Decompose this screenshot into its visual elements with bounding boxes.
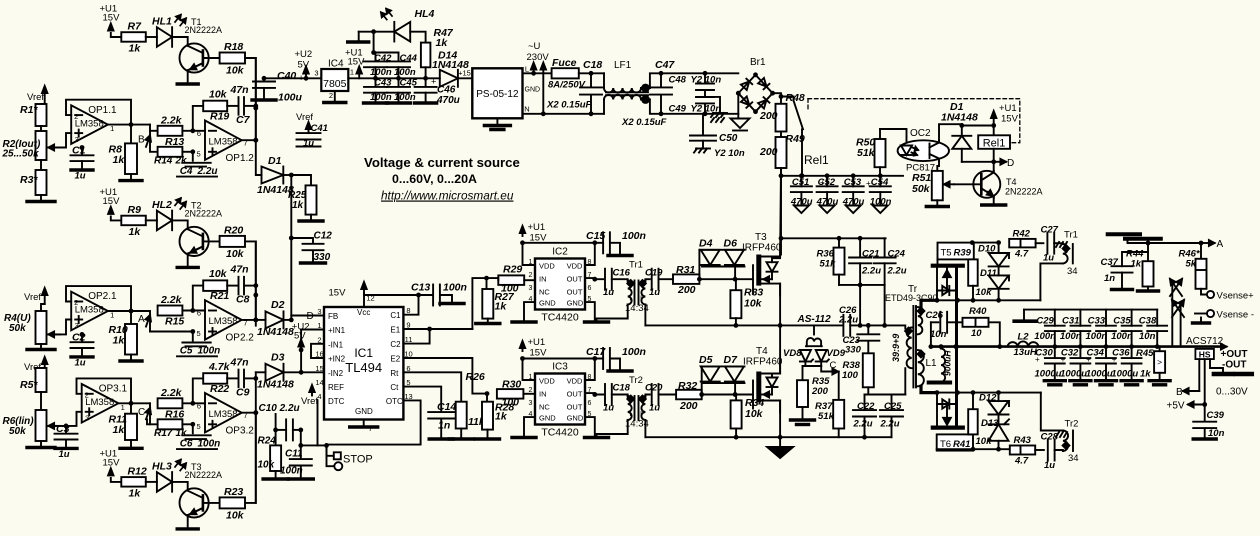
wire pin15 stub [301,371,324,373]
wire emitter T3 [187,515,189,527]
svg-text:100n: 100n [198,346,221,357]
svg-text:NC: NC [539,402,550,411]
capacitor C20 1u [645,383,663,414]
wire fb tap 1 [193,106,203,131]
junction relay +U1 [959,123,996,128]
capacitor C9 47n [230,356,250,398]
wire +U2 rail left [264,77,321,79]
svg-text:C2: C2 [390,340,401,349]
svg-text:Vref: Vref [24,292,41,303]
diodes D12 D13 [979,393,1009,450]
svg-text:5k: 5k [1186,259,1197,270]
svg-text:1u: 1u [303,138,314,149]
svg-text:+: + [820,178,825,187]
junction block2 out [253,318,258,323]
svg-text:-OUT: -OUT [1222,360,1246,371]
svg-text:330: 330 [314,252,331,263]
svg-text:C13: C13 [411,282,430,294]
power +U1 15V (relay) [991,103,1019,126]
svg-text:OP3.2: OP3.2 [226,426,255,437]
svg-text:1k: 1k [113,335,126,347]
junction rail C33 [1104,344,1109,349]
wire primary bottom bus [868,394,905,396]
wire C26 to Tr primary [850,325,905,328]
wire C28 to Tr2 III [1055,450,1063,451]
capacitor C40 100u [252,70,304,104]
svg-text:C22: C22 [857,401,875,412]
resistor R36 51k [817,238,845,285]
svg-text:6: 6 [197,309,201,318]
svg-text:50k: 50k [9,323,26,334]
wire L to fuse [523,72,552,74]
svg-text:10k: 10k [226,65,245,77]
capacitor C6 100n [177,424,220,449]
svg-text:1000u: 1000u [1086,368,1113,379]
capacitor C5 100n [177,332,220,357]
capacitor C45 100n [387,78,418,104]
wire R51 wiper to T4 base [954,183,981,185]
svg-text:TL494: TL494 [345,360,382,375]
svg-text:C27: C27 [1041,225,1059,236]
resistor R51 50k (pot) [912,171,954,200]
svg-text:4.7: 4.7 [1014,249,1029,260]
svg-text:TC4420: TC4420 [541,427,579,439]
svg-text:+U1: +U1 [528,222,546,233]
svg-text:50k: 50k [912,183,931,195]
resistor R30 100 [497,379,524,409]
wire +U2 vertical pins [300,330,302,373]
svg-text:OP3.1: OP3.1 [99,384,128,395]
junction snubber bottom [858,283,863,288]
resistor R49 200 [759,132,805,169]
wire STOP circle lead [327,445,335,466]
wire bus to T4 drain [779,325,781,373]
wire C7-out [246,105,256,107]
wire R17 1k right [182,423,192,425]
svg-text:1k: 1k [129,226,142,238]
pin 6 Rt TL494 [390,364,410,378]
ground R6(lin) [27,441,55,448]
junction bus392 [935,390,1001,395]
svg-text:Vsense -: Vsense - [1217,310,1255,321]
svg-text:OC2: OC2 [910,128,931,139]
svg-text:I: I [629,294,631,303]
svg-text:R17: R17 [154,428,173,439]
capacitor C24 2.2u [874,238,907,285]
junction R18/C7 node [253,106,258,111]
ground Br1 minus [731,93,750,130]
svg-text:+: + [1061,355,1066,364]
wire OP1.1 output [108,124,150,126]
junction C23 tap [866,323,871,328]
capacitor C26 2.2u (DC block) [838,305,858,336]
svg-text:3: 3 [75,321,79,330]
svg-text:-IN2: -IN2 [328,369,344,378]
svg-text:R29: R29 [503,264,522,276]
resistor R39 10k [968,259,992,300]
svg-text:2.2u: 2.2u [838,315,858,326]
svg-text:2N2222A: 2N2222A [1005,187,1043,197]
capacitor C12 330 [291,231,332,264]
resistor R3* [20,160,47,195]
potentiometer R6(lin) 50k [3,392,61,441]
wire Vsense- stub [1195,313,1207,315]
svg-text:C54: C54 [871,177,889,188]
wire gate T4 [702,394,753,396]
svg-text:VD9: VD9 [827,348,846,359]
resistor R33 10k [730,279,763,325]
junction IC2 +U1 [520,240,525,245]
IC U3 TC4420 [529,362,592,439]
svg-text:II: II [638,294,642,303]
resistor R18 10k [220,41,245,77]
wire IC3 VDD1 [523,359,536,381]
svg-text:C53: C53 [844,177,862,188]
ground IC3 GND5 [585,417,609,437]
wire OP3.1 feedback [77,378,132,403]
ground T3 emitter [177,527,198,530]
svg-text:HL2: HL2 [152,199,172,211]
resistor R17 1k [154,419,187,439]
svg-text:R12: R12 [128,465,147,477]
wire D1 cathode node [283,174,291,176]
svg-text:1000u: 1000u [1111,368,1138,379]
svg-text:Rel1: Rel1 [983,137,1006,149]
svg-text:4.7: 4.7 [1014,456,1029,467]
svg-text:LM358: LM358 [209,137,238,148]
capacitor C50 Y2 10n [690,114,745,159]
power Vref (row3) [24,357,47,373]
ground IC2 GND5 [585,302,609,322]
resistor R25 1k [288,175,323,221]
wire T6 bottom bus [937,448,1010,450]
svg-text:R18: R18 [224,41,243,53]
svg-text:5: 5 [197,422,201,431]
node C [138,407,151,420]
pin 5 Ct TL494 [390,378,410,392]
svg-text:D1: D1 [268,155,282,167]
svg-text:200: 200 [679,400,698,412]
arrow output rail [1214,344,1227,350]
resistor R32 200 [676,380,702,412]
svg-text:25...50k: 25...50k [2,149,40,160]
svg-text:100: 100 [502,397,520,409]
LED HL4 [381,8,434,42]
junction +U2 node [299,348,304,353]
pin 1 +IN1 TL494 [317,321,345,335]
pin 14 REF TL494 [315,378,344,392]
junction C1 tap [80,145,85,150]
wire R17 1k left [147,419,158,424]
resistor R28 1k [476,394,515,439]
svg-text:51k: 51k [820,259,837,270]
svg-text:IN: IN [539,390,547,399]
capacitor C23 330 [843,325,880,355]
junction rail C29 [1052,344,1057,349]
wire Tr2 III top [1041,393,1063,431]
svg-text:3: 3 [85,414,89,423]
svg-text:R26: R26 [466,371,485,383]
ground Vsense [1193,318,1210,324]
svg-text:100n: 100n [443,282,467,294]
junction R29 left [484,276,489,281]
wire T5 box top to bus [972,242,998,244]
diodes D5 D7 gate T4 [699,354,745,395]
pin 16 +IN2 TL494 [315,350,345,364]
svg-text:2.2k: 2.2k [160,114,183,126]
ground R51 [926,200,948,206]
wire Tr1 II to C19 [645,279,649,281]
wire OP2.2 out to D2 [256,319,266,321]
svg-text:2.2u: 2.2u [861,265,881,276]
svg-text:Rel1: Rel1 [804,153,829,167]
junction bus449 [971,447,1001,452]
svg-text:+: + [1086,355,1091,364]
svg-text:II: II [638,409,642,418]
wire emitter T1 [187,70,189,82]
svg-text:OUT: OUT [567,402,583,411]
wire OP3.2 out to D3 [256,371,266,373]
fuse Fuce 8A/250V [548,57,586,91]
capacitor C13 100n [411,282,467,306]
op-amp OP3.2 LM358 [197,393,255,437]
junction IC3 out pins [592,392,597,397]
capacitor C32 1000u electrolytic [1060,347,1091,385]
wire R23 to OP3.2 node [245,412,256,503]
wire E1 pin [403,328,472,330]
svg-text:10n: 10n [1139,331,1156,342]
diodes D4 D6 gate T3 [699,237,745,279]
junction STOP node [324,443,329,448]
capacitor C46 470u [415,77,460,107]
junction HV bus [779,173,883,178]
capacitor C35 100n [1111,310,1141,347]
arrow mains L [531,63,536,73]
wire R14 2k right [182,151,192,153]
svg-text:Voltage & current source: Voltage & current source [364,155,520,170]
junction C42 bus [371,50,376,55]
url microsmart [381,189,514,203]
wire E2 riser [460,358,487,394]
svg-text:R21: R21 [210,290,229,302]
dashed enclosure relay module [808,99,1020,143]
junction C3 tap [64,424,69,429]
capacitor C16 1u [603,268,631,299]
wire R9-HL2 [146,219,157,221]
wire DTC drop [317,400,319,445]
ground T4 emitter [982,198,1006,205]
ground R3* [27,195,55,202]
wire HV capacitor bus [781,175,903,177]
wire output rail [931,345,1219,348]
svg-text:100n: 100n [394,67,416,78]
svg-text:LM358: LM358 [75,118,104,129]
capacitor C33 100n [1086,310,1116,347]
connector Vsense+ [1207,291,1254,302]
svg-text:2.2u: 2.2u [197,166,218,177]
svg-text:1k: 1k [1131,259,1142,270]
svg-text:VD8: VD8 [783,348,802,359]
power Vref (row1) [27,86,47,104]
wire R47 bottom [425,67,427,78]
wire OP3.1 output [118,402,150,404]
zener VD9 [805,348,845,366]
power ~U 230V [527,41,550,63]
junction T5 top [970,240,1001,245]
transformer winding Tr1 III 34 [1056,230,1078,278]
junction D3 node [299,370,304,375]
svg-text:1u: 1u [1044,460,1055,471]
junction D2 cathode [289,318,294,323]
svg-text:1k: 1k [176,428,188,439]
svg-text:100n: 100n [1111,331,1133,342]
rectifier T6 bars [933,393,963,428]
svg-text:C4: C4 [180,166,193,177]
svg-text:Br1: Br1 [750,57,766,68]
svg-text:5: 5 [197,149,201,158]
resistor R21 10k [203,268,229,302]
junction L1 top [929,344,944,349]
wire IC3 +U1 rail [523,358,604,360]
resistor R24 10k [258,430,289,479]
junction return bus [734,435,867,440]
capacitor C21 2.2u [849,238,881,285]
wire D node vertical [290,175,292,320]
junction HL4/C42 bus [371,29,376,34]
resistor R16 2.2k [158,387,185,421]
wire IC2 +U1 rail [523,242,604,244]
capacitor C11 100n [280,430,313,479]
IC U1 TL494 [324,307,403,420]
pin 7 GND TL494 [368,424,372,433]
resistor R37 51k [815,372,844,438]
varistor R45 1k [1136,347,1170,385]
svg-text:C44: C44 [400,53,418,64]
node +5V [1167,359,1205,411]
svg-text:C26: C26 [926,310,944,321]
resistor R43 4.7 [1010,435,1035,467]
svg-text:2: 2 [529,272,533,279]
svg-text:R45: R45 [1136,348,1154,359]
ground Tr2 winding I [597,420,628,436]
pin 13 OTC TL494 [386,392,413,406]
ground HL4 [348,32,369,42]
wire snubber top [781,237,886,239]
svg-text:VDD: VDD [539,377,555,386]
junction fb node 3 [253,376,258,381]
svg-text:OUT: OUT [567,275,583,284]
transistor T1 2N2222A [180,17,223,73]
junction VDD8 rail [592,240,597,245]
transformer Tr ETD49-3C90 [885,284,938,387]
wire R29 to IC2 IN [524,279,535,281]
optocoupler OC2 PC817 [898,128,949,174]
svg-text:1u: 1u [603,403,614,414]
resistor R5* [20,368,47,392]
junction OP1.1 out [129,122,134,127]
junction R20 node [253,293,258,298]
svg-text:R42: R42 [1013,229,1031,240]
svg-text:2N2222A: 2N2222A [185,208,223,218]
wire base-R20 [203,240,220,242]
capacitor C31 100n [1060,310,1090,347]
svg-text:R48: R48 [786,92,805,104]
junction L arrow [531,71,536,76]
pin 4 DTC TL494 [317,392,344,406]
inductor L2 13uH [1008,332,1039,359]
svg-text:R39: R39 [954,248,972,259]
svg-text:OP2.1: OP2.1 [88,291,117,302]
svg-text:15V: 15V [329,288,347,299]
svg-text:1: 1 [350,68,354,77]
wire R38 bus to C22 [865,394,869,396]
svg-text:2: 2 [74,298,78,307]
capacitor C27 1u [1041,225,1059,264]
wire IC2 OUT [585,278,603,279]
svg-text:330: 330 [845,345,862,356]
svg-text:R19: R19 [210,110,229,122]
wire C27 to Tr1 III [1054,242,1063,244]
svg-text:T4: T4 [1006,177,1017,187]
wire STOP square lead [327,445,334,455]
svg-text:2: 2 [529,387,533,394]
wire block2 node chain [255,241,257,320]
junction T4 gate [699,392,737,397]
label N pin [524,105,529,114]
svg-text:Ct: Ct [390,383,399,392]
svg-text:47n: 47n [230,356,249,368]
capacitor C36 1000u electrolytic [1111,347,1142,385]
svg-text:C7: C7 [236,114,251,126]
power +U1 15V (IC3) [520,337,547,359]
svg-text:6: 6 [197,401,201,410]
svg-text:OP1.1: OP1.1 [88,105,117,116]
svg-text:C49: C49 [669,104,687,115]
junction inv node 3 [190,401,195,427]
wire C20 to R32 [659,394,677,396]
svg-text:DTC: DTC [328,397,345,406]
wire R29 left link [487,278,499,280]
svg-text:L2: L2 [1018,332,1030,343]
capacitor C43 100n [364,78,393,104]
wire D14-PS [458,77,472,79]
wire E2 pin [403,357,460,359]
capacitor C54 100n [870,176,892,213]
power +U2 5V (7805 out) [295,49,313,78]
svg-text:16: 16 [315,350,323,359]
junction C2-E1 [427,327,432,332]
svg-text:C20: C20 [645,383,663,394]
wire E1 riser [472,278,486,329]
svg-text:X2 0.15uF: X2 0.15uF [546,100,592,111]
connector Vsense- [1207,310,1254,321]
svg-text:B: B [138,134,145,145]
transformer Tr1 14:34 [625,260,649,315]
svg-text:IN: IN [539,275,547,284]
resistor R42 4.7 [1009,229,1035,260]
wire cap bank top bus [1024,309,1157,311]
capacitor C14 1n [403,387,456,439]
svg-text:C33: C33 [1088,316,1106,327]
wire fb tap 2 [193,286,203,311]
wire snubber bottom [839,284,885,286]
svg-text:10k: 10k [226,509,245,521]
svg-text:100n: 100n [1086,331,1108,342]
svg-text:47n: 47n [230,84,249,96]
ground cap bank top bus [1014,310,1036,322]
svg-text:C25: C25 [884,401,902,412]
wire fuse to LF1 top [579,72,604,74]
